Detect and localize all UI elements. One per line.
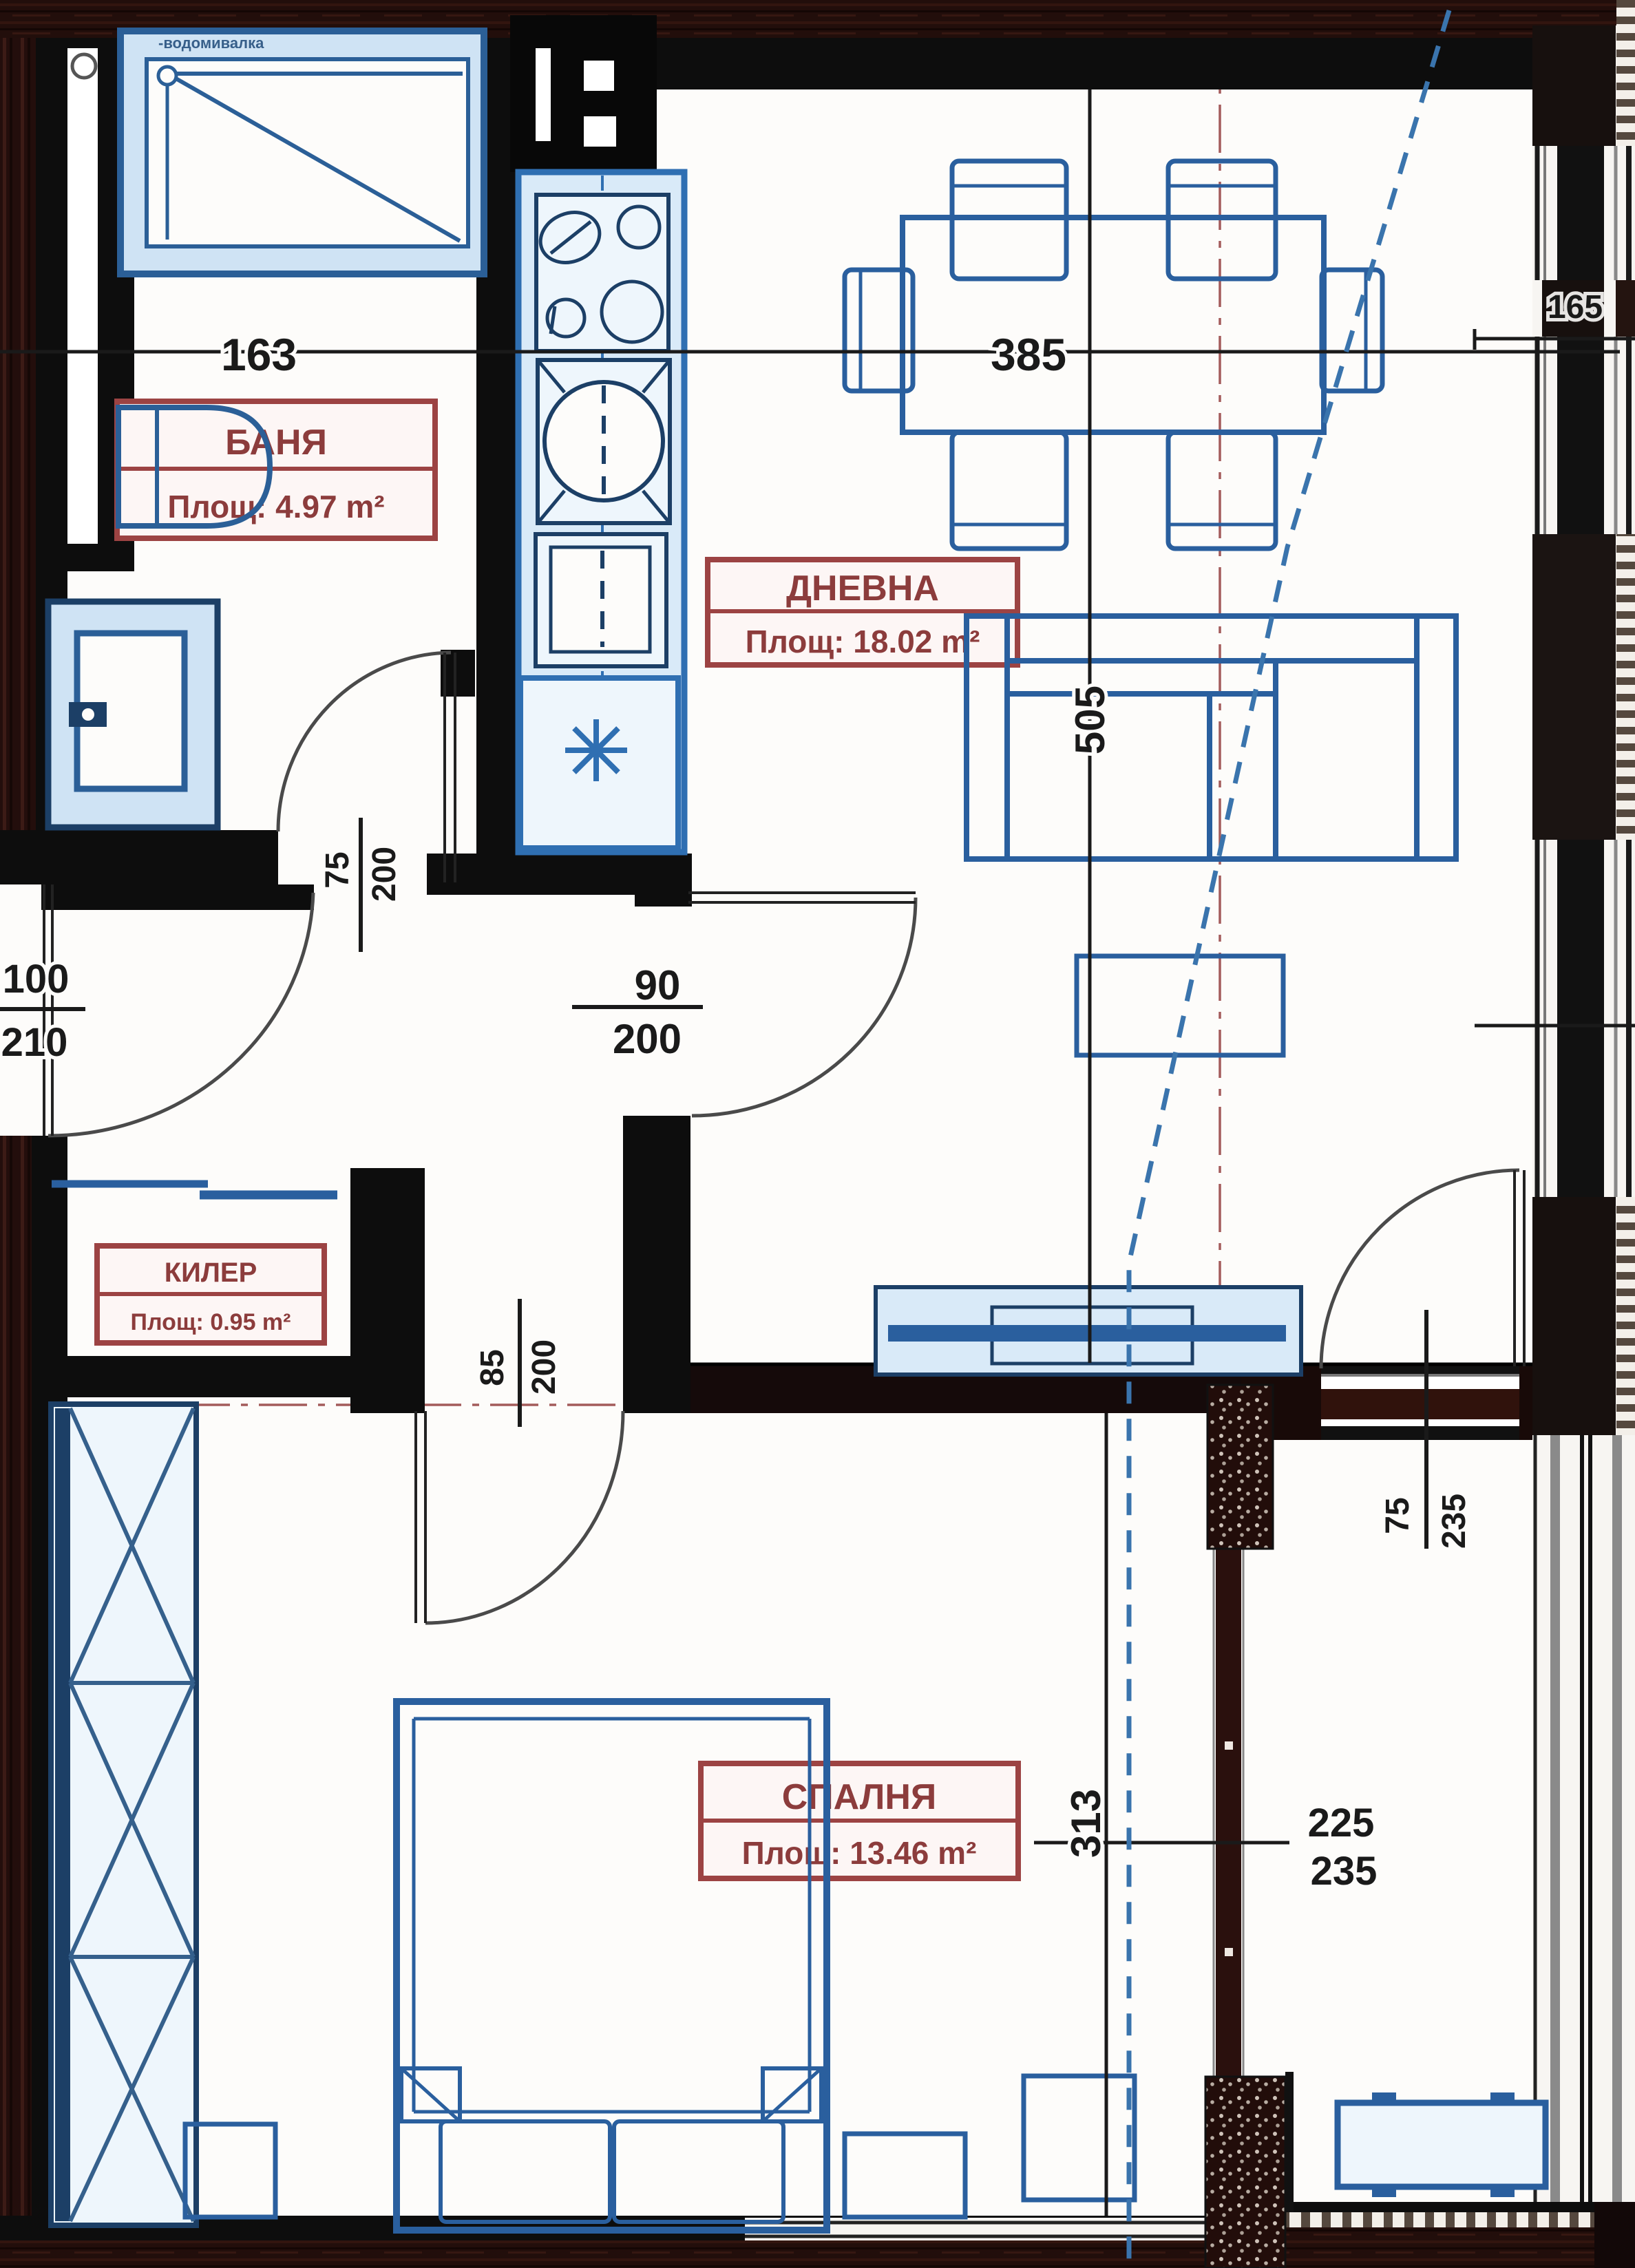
svg-text:ДНЕВНА: ДНЕВНА	[786, 569, 939, 608]
svg-text:Площ: 13.46 m²: Площ: 13.46 m²	[742, 1835, 977, 1871]
svg-text:200: 200	[526, 1339, 562, 1395]
svg-text:СПАЛНЯ: СПАЛНЯ	[782, 1777, 937, 1817]
svg-text:Площ: 18.02 m²: Площ: 18.02 m²	[746, 624, 980, 659]
svg-text:313: 313	[1063, 1789, 1109, 1858]
svg-text:505: 505	[1067, 686, 1113, 754]
svg-text:Площ: 0.95 m²: Площ: 0.95 m²	[131, 1309, 291, 1335]
svg-text:КИЛЕР: КИЛЕР	[165, 1258, 257, 1288]
svg-text:235: 235	[1311, 1849, 1378, 1894]
svg-text:75: 75	[319, 851, 356, 888]
svg-text:-водомивалка: -водомивалка	[158, 34, 264, 52]
svg-text:Площ: 4.97 m²: Площ: 4.97 m²	[167, 489, 384, 524]
svg-text:385: 385	[991, 329, 1066, 380]
svg-text:200: 200	[366, 847, 403, 902]
svg-text:75: 75	[1380, 1497, 1416, 1534]
svg-text:235: 235	[1436, 1494, 1473, 1549]
svg-text:БАНЯ: БАНЯ	[225, 423, 327, 463]
svg-text:165: 165	[1548, 289, 1603, 326]
svg-text:85: 85	[474, 1349, 511, 1386]
svg-text:100: 100	[3, 957, 70, 1001]
svg-text:210: 210	[1, 1020, 68, 1065]
svg-text:163: 163	[221, 329, 297, 380]
svg-text:225: 225	[1308, 1801, 1375, 1845]
svg-text:90: 90	[635, 962, 681, 1008]
svg-text:200: 200	[613, 1016, 682, 1062]
